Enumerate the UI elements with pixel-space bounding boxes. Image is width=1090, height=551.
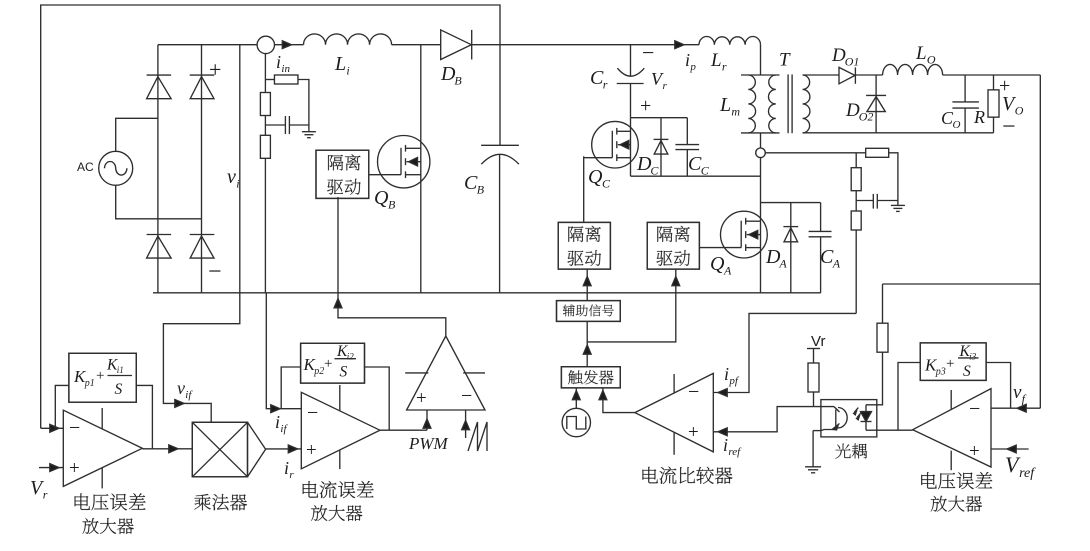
svg-text:A: A xyxy=(723,264,732,278)
arrow PWM plus xyxy=(423,419,431,428)
source AC wire top xyxy=(116,118,158,151)
label opto light arrows xyxy=(854,408,862,420)
wire bridge right leg xyxy=(201,45,203,293)
label 触发器 xyxy=(568,370,613,384)
wire osc to trigger xyxy=(575,388,577,408)
label V_ref xyxy=(1005,452,1036,481)
comparator PWM xyxy=(405,336,485,410)
arrow i_in direction xyxy=(282,41,291,49)
wire rail C_r-node-to-L_r xyxy=(631,44,700,46)
svg-text:AC: AC xyxy=(77,160,94,174)
label v_f xyxy=(1013,382,1027,405)
label + amp3 xyxy=(969,441,980,462)
wire C_B top lead from bus xyxy=(499,45,501,146)
label C_B xyxy=(464,172,485,197)
arrow i_if xyxy=(271,405,280,413)
svg-text:p3: p3 xyxy=(935,367,946,378)
label K_p3 PI xyxy=(924,343,979,380)
svg-text:i: i xyxy=(284,458,289,478)
svg-text:i: i xyxy=(723,435,728,455)
wire amp3 feedback tap xyxy=(898,363,920,431)
label − amp1 xyxy=(69,417,80,439)
svg-text:v: v xyxy=(177,378,185,398)
diode bridge lower-left xyxy=(147,235,172,259)
svg-text:i: i xyxy=(346,64,349,78)
block isolation-drive Q_C xyxy=(558,222,610,269)
label L_i xyxy=(334,53,350,78)
diode D_B xyxy=(441,30,472,60)
label D_A xyxy=(765,246,787,271)
inductor L_O xyxy=(883,64,943,75)
svg-text:+: + xyxy=(640,95,651,117)
wire current sense drop xyxy=(264,54,266,293)
wire amp1 minus input xyxy=(41,427,64,429)
label Vr xyxy=(811,333,825,350)
wire multiplier output xyxy=(266,448,302,450)
capacitor C_A xyxy=(809,203,832,293)
svg-text:L: L xyxy=(334,53,346,75)
label Q_A xyxy=(710,253,732,278)
label C_r xyxy=(590,67,608,92)
label AC xyxy=(77,160,94,174)
svg-text:L: L xyxy=(719,94,731,116)
arrow amp1 minus xyxy=(50,424,59,432)
svg-text:A: A xyxy=(778,257,787,271)
svg-text:B: B xyxy=(477,183,485,197)
supply Vr xyxy=(807,349,820,364)
svg-text:i: i xyxy=(275,412,280,432)
ground input filter xyxy=(302,125,316,138)
svg-text:+: + xyxy=(688,422,699,443)
wire opto feed drop xyxy=(882,284,884,323)
block trigger xyxy=(561,367,620,388)
diode bridge upper-left xyxy=(147,75,172,99)
svg-text:i: i xyxy=(236,177,239,191)
wire PWM minus input xyxy=(465,410,467,438)
label i_in xyxy=(276,52,290,75)
label D_O1 xyxy=(831,45,859,68)
label PWM xyxy=(408,434,449,453)
arrow V_ref xyxy=(1007,445,1016,453)
label v_i xyxy=(227,166,240,191)
wire sense cap right xyxy=(877,200,898,202)
label − PWM xyxy=(461,385,472,407)
wire LED cathode out xyxy=(866,429,877,431)
wire v_f sense drop xyxy=(1039,75,1041,408)
arrow i_ref xyxy=(718,428,727,436)
svg-text:S: S xyxy=(963,363,971,380)
svg-text:C: C xyxy=(701,164,710,178)
wire trigger to aux xyxy=(586,321,588,366)
node resonant midpoint xyxy=(756,148,766,158)
core transformer xyxy=(788,74,792,133)
arrow osc-trigger xyxy=(572,391,580,400)
svg-text:S: S xyxy=(115,381,123,398)
label L_r xyxy=(710,50,727,73)
wire i_if path xyxy=(266,293,301,409)
wire bottom bus xyxy=(153,292,821,294)
source square-wave osc xyxy=(562,408,590,436)
block isolation-drive Q_B xyxy=(316,150,369,198)
svg-text:p1: p1 xyxy=(84,378,95,389)
label 放大器 left xyxy=(83,518,134,534)
label + comp xyxy=(688,422,699,443)
svg-text:C: C xyxy=(650,164,659,178)
label bridge − xyxy=(208,259,222,285)
wire i_ref path xyxy=(713,407,813,432)
svg-text:Vr: Vr xyxy=(811,333,825,350)
capacitor C_O xyxy=(952,75,979,133)
svg-text:i: i xyxy=(685,50,690,70)
svg-text:r: r xyxy=(603,78,608,92)
block isolation-drive Q_A xyxy=(647,222,699,269)
diode D_C xyxy=(654,118,669,177)
label v_if xyxy=(177,378,193,401)
wire opto input pin xyxy=(814,406,835,408)
wire PI-2 output xyxy=(365,367,390,430)
label 放大器 right xyxy=(931,496,982,512)
label L_O xyxy=(915,43,936,66)
label + amp1 xyxy=(69,458,80,479)
transistor Q_A xyxy=(699,211,767,258)
wire v_if path xyxy=(163,293,239,423)
capacitor C_C xyxy=(675,118,699,177)
comparator current xyxy=(635,373,713,454)
label − comp xyxy=(688,381,699,403)
svg-text:L: L xyxy=(915,43,927,64)
wire v_i sense line xyxy=(239,45,241,293)
wire PI-1 output xyxy=(136,385,152,448)
resistor Vr bias xyxy=(808,363,819,392)
svg-text:R: R xyxy=(973,107,985,127)
label K_p1 PI xyxy=(73,357,132,399)
wire rail D_B-to-C_r-node xyxy=(472,44,631,46)
wire i_pf path xyxy=(713,313,856,392)
wire cap left lead xyxy=(265,124,285,126)
svg-text:v: v xyxy=(1013,382,1022,403)
wire amp1 plus input xyxy=(39,467,63,469)
diode bridge upper-right xyxy=(190,75,215,99)
label Q_C xyxy=(588,166,611,191)
arrow comp-trigger xyxy=(599,391,607,400)
label + PWM xyxy=(416,388,427,409)
wire amp1 feedback tap xyxy=(55,385,69,428)
inductor L_i xyxy=(304,34,392,45)
arrow v_if xyxy=(175,400,184,408)
wire stub to filter resistor xyxy=(265,79,274,81)
label sawtooth xyxy=(468,422,487,451)
svg-text:r: r xyxy=(43,488,48,502)
svg-text:v: v xyxy=(227,166,236,188)
wire opto feed tap xyxy=(883,283,1041,285)
svg-text:i2: i2 xyxy=(347,352,355,362)
wire D_O1 to L_O xyxy=(855,74,882,76)
svg-text:+: + xyxy=(209,57,221,82)
label − C_r xyxy=(642,40,654,65)
label V_r left xyxy=(30,477,48,502)
wire opto emitter ground xyxy=(805,431,821,473)
capacitor input filter xyxy=(285,116,289,134)
node current-sense point xyxy=(257,36,274,53)
block PI-2 xyxy=(301,343,365,383)
wire amp1 output xyxy=(142,448,192,450)
wire V_ref input xyxy=(991,448,1029,450)
label V_O xyxy=(1002,93,1024,118)
wire amp3 output xyxy=(877,429,913,431)
svg-text:−: − xyxy=(969,398,980,420)
label 隔离驱动 Q_B xyxy=(327,154,361,194)
label V_r xyxy=(651,69,668,92)
label 电流误差 xyxy=(303,481,374,498)
svg-text:O: O xyxy=(1015,104,1024,118)
arrow Q_C drive xyxy=(583,277,591,286)
wire sense resistor right xyxy=(889,153,898,201)
wire Q_C gate drop xyxy=(583,156,585,222)
wire opto feed to LED xyxy=(866,352,883,405)
svg-text:O: O xyxy=(953,119,961,131)
svg-text:+: + xyxy=(946,356,954,372)
svg-text:i1: i1 xyxy=(117,365,124,375)
svg-text:+: + xyxy=(96,368,104,384)
svg-text:C: C xyxy=(602,177,611,191)
wire Q_C cell bottom xyxy=(631,175,761,177)
wire sense cap left xyxy=(856,200,873,202)
wire rail sense-to-L_i xyxy=(275,44,304,46)
inductor L_m xyxy=(748,75,755,133)
svg-text:m: m xyxy=(731,105,740,119)
wire amp2 feedback tap xyxy=(281,367,300,409)
label K_p2 PI xyxy=(303,343,357,380)
transistor opto photo-BJT xyxy=(821,407,847,431)
wire sense divider vertical xyxy=(855,153,857,314)
label 放大器 mid xyxy=(311,505,362,521)
label i_ref xyxy=(723,435,742,458)
source AC xyxy=(99,151,133,185)
label C_O xyxy=(941,108,961,131)
svg-text:O2: O2 xyxy=(859,109,874,123)
wire PWM plus input xyxy=(426,410,428,430)
wire primary top xyxy=(741,74,780,76)
label Q_B xyxy=(374,187,396,212)
capacitor C_r xyxy=(617,45,645,118)
wire secondary top xyxy=(803,74,839,76)
resistor divider upper xyxy=(260,93,270,116)
svg-text:−: − xyxy=(688,381,699,403)
svg-text:ref: ref xyxy=(1019,466,1036,481)
svg-text:−: − xyxy=(1002,114,1016,140)
label 辅助信号 xyxy=(563,304,614,316)
arrow PWM minus xyxy=(462,421,470,430)
block optocoupler xyxy=(821,400,877,437)
svg-text:B: B xyxy=(388,198,396,212)
svg-text:Q: Q xyxy=(588,166,603,188)
svg-text:r: r xyxy=(289,469,294,481)
svg-text:i3: i3 xyxy=(969,352,977,362)
svg-text:+: + xyxy=(306,440,317,461)
label − amp2 xyxy=(307,402,318,424)
resistor sense divider upper xyxy=(851,168,861,191)
block PI-3 xyxy=(920,343,986,381)
svg-text:−: − xyxy=(461,385,472,407)
wire amp2 output xyxy=(380,429,427,431)
arrow i_p direction xyxy=(675,41,684,49)
svg-text:in: in xyxy=(281,63,290,75)
wire secondary bottom xyxy=(803,132,994,134)
svg-text:+: + xyxy=(324,356,332,372)
wire rail L_i-to-D_B xyxy=(392,44,441,46)
label 电压误差 right xyxy=(921,472,992,489)
op-amp voltage error (output) xyxy=(913,389,991,471)
svg-text:O: O xyxy=(927,52,936,66)
svg-text:B: B xyxy=(454,74,462,88)
resistor opto feed xyxy=(877,323,888,352)
transistor Q_B xyxy=(369,136,430,188)
label 乘法器 xyxy=(194,494,247,510)
inductor L_r xyxy=(699,37,761,45)
wire Q_C drain/source line xyxy=(630,118,632,177)
winding transformer primary xyxy=(768,75,775,133)
svg-text:T: T xyxy=(779,50,791,71)
wire filter resistor to cap xyxy=(298,80,309,126)
wire C_r node to D_C/C_C xyxy=(631,117,688,119)
label − amp3 xyxy=(969,398,980,420)
resistor sense horizontal xyxy=(866,148,889,157)
resistor R load xyxy=(988,75,999,133)
label D_C xyxy=(636,153,659,178)
wire PI-3 output xyxy=(986,363,1011,409)
arrow v_f xyxy=(1017,404,1026,412)
wire top rail (rectifier + to L_i) xyxy=(158,44,257,46)
label D_B xyxy=(440,63,462,88)
LED opto xyxy=(861,405,872,430)
svg-text:Q: Q xyxy=(374,187,389,209)
svg-text:p: p xyxy=(689,61,696,73)
resistor input filter horizontal xyxy=(274,75,298,84)
label i_if xyxy=(275,412,288,435)
arrow i_pf xyxy=(718,389,727,397)
wire feedback bus-voltage sense (top/left border) xyxy=(41,5,500,428)
op-amp voltage error (PFC) xyxy=(63,408,142,488)
wire node to divider xyxy=(765,152,866,154)
wire comparator to trigger xyxy=(603,388,635,413)
label C_C xyxy=(688,153,710,178)
svg-text:L: L xyxy=(710,50,722,71)
label i_p xyxy=(685,50,696,73)
svg-text:−: − xyxy=(208,259,222,285)
label i_pf xyxy=(724,364,740,387)
op-amp current error xyxy=(301,385,380,469)
label L_m xyxy=(719,94,740,119)
label + amp2 xyxy=(306,440,317,461)
arrow trigger-aux xyxy=(583,345,591,354)
svg-text:A: A xyxy=(832,257,841,271)
diode D_A xyxy=(783,203,798,293)
arrow Q_B drive xyxy=(334,299,342,308)
arrow amp1 output xyxy=(169,445,178,453)
label 光耦 xyxy=(835,444,867,459)
arrow Q_A drive xyxy=(672,277,680,286)
svg-text:S: S xyxy=(340,363,348,380)
capacitor C_B xyxy=(481,145,519,292)
label + V_O xyxy=(999,75,1010,97)
block auxiliary-signal xyxy=(557,301,621,322)
svg-text:−: − xyxy=(642,40,654,65)
wire transformer mid drop xyxy=(760,133,762,293)
wire L_r down to transformer xyxy=(760,45,762,75)
arrow amp1 plus xyxy=(50,464,59,472)
wire L_O to output corner xyxy=(943,74,1041,76)
wire cap right lead xyxy=(289,124,309,126)
label 隔离驱动 Q_C xyxy=(568,226,602,266)
diode D_O2 xyxy=(866,75,886,133)
svg-text:+: + xyxy=(69,458,80,479)
svg-text:i: i xyxy=(724,364,729,384)
wire bridge left leg xyxy=(157,45,159,293)
label − V_O xyxy=(1002,114,1016,140)
source AC wire bottom xyxy=(116,185,202,219)
svg-text:p2: p2 xyxy=(313,366,324,377)
svg-text:+: + xyxy=(969,441,980,462)
label C_A xyxy=(820,246,841,271)
label i_r xyxy=(284,458,294,481)
wire Q_A cell top xyxy=(761,202,821,204)
label 电压误差 left xyxy=(75,493,146,510)
wire Vr resistor to node xyxy=(813,392,815,407)
svg-text:O1: O1 xyxy=(845,54,860,68)
svg-text:Q: Q xyxy=(710,253,725,275)
capacitor sense filter xyxy=(873,194,877,209)
wire v_f input xyxy=(991,407,1040,409)
resistor sense divider lower xyxy=(851,211,861,230)
svg-text:i: i xyxy=(276,52,281,72)
arrow i_r xyxy=(288,445,297,453)
label 电流比较器 xyxy=(643,467,733,484)
svg-text:−: − xyxy=(307,402,318,424)
label bridge + xyxy=(209,57,221,82)
svg-text:+: + xyxy=(416,388,427,409)
block multiplier xyxy=(192,422,265,477)
label D_O2 xyxy=(845,100,873,123)
transistor Q_C xyxy=(584,121,639,168)
label T xyxy=(779,50,791,71)
label R xyxy=(973,107,985,127)
wire Q_B drain/source line xyxy=(420,45,422,293)
svg-text:ref: ref xyxy=(728,446,742,458)
label 隔离驱动 Q_A xyxy=(657,226,691,266)
diode D_O1 xyxy=(839,67,855,83)
wire trigger branch right xyxy=(587,269,676,342)
ground sense filter xyxy=(891,201,905,212)
diode bridge lower-right xyxy=(190,235,215,259)
wire PWM output to Q_B drive xyxy=(338,197,446,336)
wire aux to drive Q_C xyxy=(586,269,588,301)
svg-text:−: − xyxy=(69,417,80,439)
svg-text:PWM: PWM xyxy=(408,434,449,453)
resistor divider lower xyxy=(260,135,270,158)
label + C_r xyxy=(640,95,651,117)
winding transformer secondary xyxy=(803,75,810,133)
block PI-1 xyxy=(69,353,136,402)
wire primary bottom xyxy=(741,132,780,134)
svg-text:r: r xyxy=(663,80,668,92)
svg-text:r: r xyxy=(722,59,727,73)
